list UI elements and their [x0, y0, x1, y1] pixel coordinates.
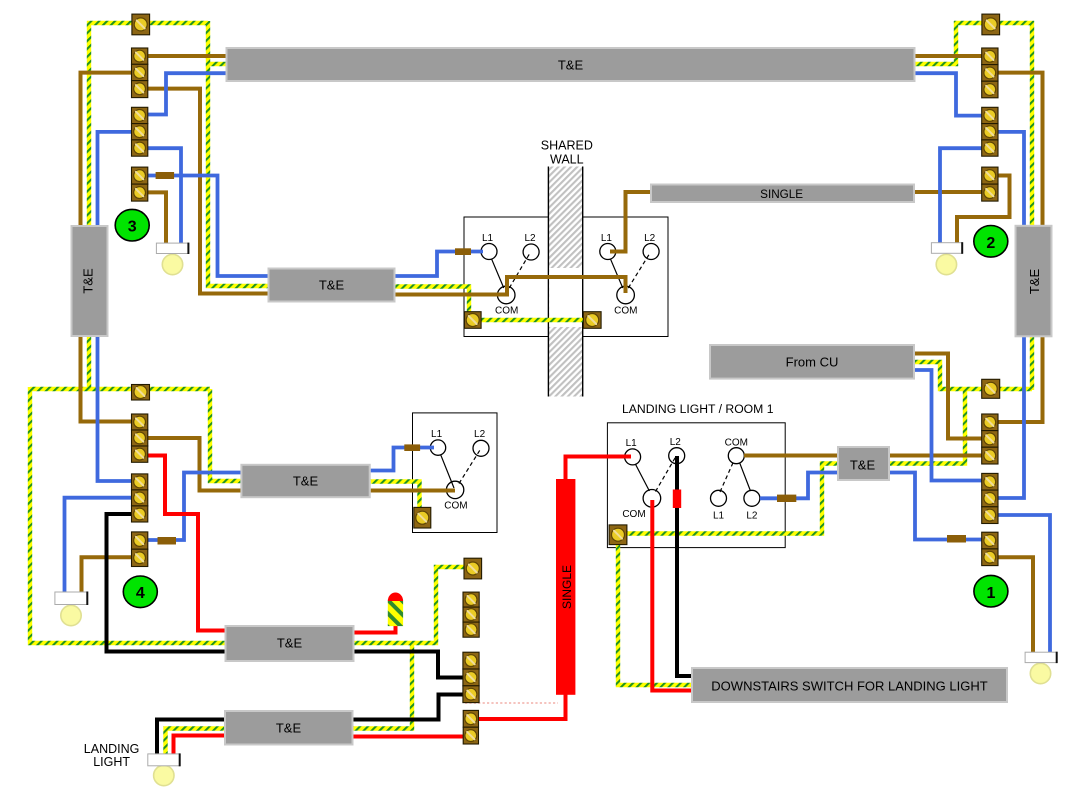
svg-text:1: 1: [986, 585, 995, 602]
svg-text:COM: COM: [725, 438, 748, 449]
svg-text:SHARED: SHARED: [541, 139, 593, 153]
svg-text:COM: COM: [495, 306, 518, 317]
svg-text:L2: L2: [644, 233, 656, 244]
svg-text:L2: L2: [670, 437, 682, 448]
svg-text:T&E: T&E: [1027, 269, 1042, 295]
svg-text:T&E: T&E: [293, 474, 319, 489]
svg-text:L2: L2: [474, 429, 486, 440]
svg-text:L1: L1: [601, 233, 613, 244]
svg-text:COM: COM: [614, 306, 637, 317]
svg-text:L2: L2: [524, 233, 536, 244]
svg-text:COM: COM: [622, 509, 645, 520]
svg-text:LIGHT: LIGHT: [93, 755, 130, 769]
svg-text:T&E: T&E: [81, 268, 96, 294]
svg-text:L1: L1: [626, 438, 638, 449]
svg-text:LANDING: LANDING: [84, 742, 140, 756]
svg-text:T&E: T&E: [277, 636, 303, 651]
svg-text:2: 2: [986, 235, 995, 252]
svg-text:LANDING LIGHT / ROOM 1: LANDING LIGHT / ROOM 1: [622, 402, 774, 416]
svg-text:SINGLE: SINGLE: [760, 188, 803, 201]
svg-text:From CU: From CU: [786, 355, 839, 370]
svg-text:3: 3: [128, 219, 137, 236]
svg-text:T&E: T&E: [276, 721, 302, 736]
svg-text:SINGLE: SINGLE: [560, 565, 574, 609]
svg-text:DOWNSTAIRS SWITCH FOR LANDING: DOWNSTAIRS SWITCH FOR LANDING LIGHT: [711, 678, 987, 693]
svg-text:COM: COM: [444, 501, 467, 512]
svg-text:WALL: WALL: [550, 152, 584, 166]
svg-text:4: 4: [136, 585, 145, 602]
svg-text:L1: L1: [431, 429, 443, 440]
svg-text:L2: L2: [746, 511, 758, 522]
svg-text:T&E: T&E: [319, 278, 345, 293]
svg-text:L1: L1: [713, 511, 725, 522]
svg-text:T&E: T&E: [850, 458, 876, 473]
svg-text:T&E: T&E: [558, 57, 584, 72]
svg-text:L1: L1: [482, 233, 494, 244]
